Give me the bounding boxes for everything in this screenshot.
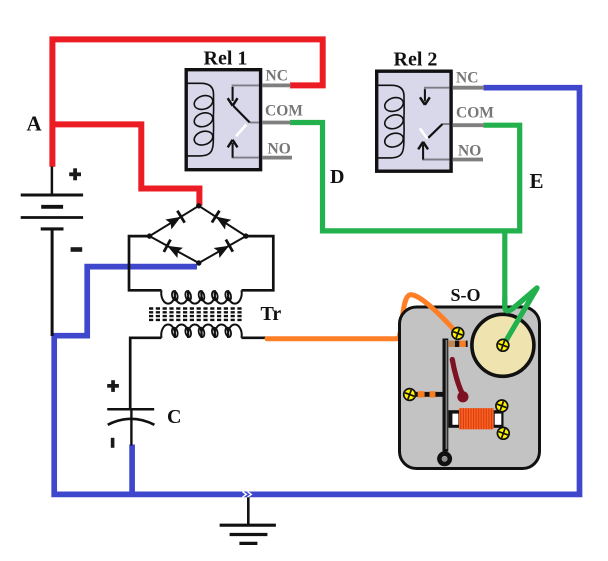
battery + sign xyxy=(69,168,81,180)
node left of bridge xyxy=(147,233,152,238)
S-O lever xyxy=(452,360,462,394)
diode D4 bottom-right xyxy=(213,240,233,260)
svg-text:NC: NC xyxy=(456,70,478,87)
S-O screw top xyxy=(452,327,465,340)
S-O box xyxy=(400,307,540,469)
S-O rod ring xyxy=(439,454,449,464)
wire bridge right node to primary xyxy=(242,236,274,290)
S-O left bar orange segment 1 xyxy=(418,391,425,397)
relay U1 COM arm xyxy=(250,122,259,124)
relay U1 NC contact xyxy=(233,85,259,101)
relay U2 COM arm xyxy=(443,123,450,125)
wire bridge left node to primary xyxy=(129,236,162,290)
S-O mechanism redrawn above wires xyxy=(400,307,540,469)
capacitor - tick xyxy=(111,438,115,448)
svg-text:Tr: Tr xyxy=(261,303,282,325)
ground bar 1 xyxy=(220,524,276,527)
S-O solenoid coil xyxy=(459,408,494,429)
relay U1 box xyxy=(186,70,260,170)
relay U1 NO contact xyxy=(233,143,259,158)
svg-text:S-O: S-O xyxy=(451,285,481,305)
battery B1 plates xyxy=(21,195,83,229)
svg-text:E: E xyxy=(530,169,544,193)
relay U1 arm white slash xyxy=(236,125,246,137)
node top of bridge xyxy=(196,203,201,208)
diode D3 bottom-left xyxy=(164,240,184,259)
svg-text:A: A xyxy=(27,112,43,136)
wire blue: bridge bottom to battery minus, bottom rail, right side up to Rel2 NC xyxy=(54,88,579,495)
svg-text:COM: COM xyxy=(456,105,494,122)
svg-text:D: D xyxy=(330,166,344,188)
transformer Tr secondary coil xyxy=(161,324,241,337)
wire green: branch down into S-O disc xyxy=(503,233,537,345)
bridge edge B-L xyxy=(150,236,199,263)
node right of bridge xyxy=(243,233,248,238)
svg-text:NO: NO xyxy=(458,143,481,160)
S-O screw left xyxy=(403,388,416,401)
S-O screw right upper xyxy=(496,400,509,413)
capacitor mid lead xyxy=(130,410,132,446)
S-O screw right lower xyxy=(497,427,510,440)
svg-text:NC: NC xyxy=(266,68,288,85)
relay U2 box xyxy=(377,71,451,171)
wire red: battery + up and over to Rel1 NC xyxy=(52,39,322,166)
S-O pendulum rod xyxy=(443,339,449,452)
wire orange: transformer to S-O top screw xyxy=(267,295,457,339)
diode D1 top-left xyxy=(165,211,185,231)
svg-text:Rel 2: Rel 2 xyxy=(394,49,438,71)
svg-text:C: C xyxy=(167,406,181,428)
wire green overlay into disc xyxy=(503,288,537,345)
ground bar 3 xyxy=(239,542,257,545)
S-O top terminal tan segment xyxy=(448,341,455,347)
relay U2 NO contact xyxy=(423,145,449,160)
svg-text:COM: COM xyxy=(265,103,303,120)
wire red: node A branch to bridge top xyxy=(52,124,199,205)
relay U1 COM stub xyxy=(262,121,291,125)
ground bar 2 xyxy=(230,533,268,536)
relay U2 coil xyxy=(377,85,404,158)
battery bottom lead xyxy=(51,229,54,336)
diode D2 top-right xyxy=(212,211,232,231)
wire green: Rel1 COM down (D) along to Rel2 COM (E) xyxy=(290,123,520,231)
bridge edge B-R xyxy=(199,236,246,263)
bridge edge L-T xyxy=(150,206,199,236)
S-O left bar xyxy=(412,392,443,397)
battery - sign xyxy=(71,247,83,252)
ground stem xyxy=(247,497,250,524)
relay U1 NC stub xyxy=(262,84,291,88)
S-O screw disc center xyxy=(497,339,510,352)
S-O top terminal black tip xyxy=(466,341,468,347)
battery top lead xyxy=(51,167,54,195)
junction chevrons on rail xyxy=(243,492,252,498)
wire blue: capacitor minus to bottom rail xyxy=(129,445,135,495)
relay U2 COM stub xyxy=(453,123,485,127)
S-O left bar orange segment 2 xyxy=(430,391,436,397)
S-O top terminal orange segment xyxy=(459,341,465,347)
transformer core xyxy=(149,309,244,320)
S-O disc xyxy=(472,314,534,376)
S-O solenoid right clamp xyxy=(494,410,504,428)
relay U2 arm white slash xyxy=(420,128,427,138)
svg-text:NO: NO xyxy=(268,140,291,157)
capacitor C top plate xyxy=(107,408,154,411)
bridge edge R-T xyxy=(199,206,246,236)
relay U2 NC stub xyxy=(453,86,485,90)
wire secondary left to capacitor xyxy=(130,338,161,409)
capacitor C bottom curved plate xyxy=(108,419,155,425)
S-O top terminal black segment xyxy=(455,341,459,347)
relay U1 coil xyxy=(187,83,214,156)
wire orange overlay into box xyxy=(411,295,458,334)
capacitor + sign xyxy=(107,380,119,392)
relay U2 NC contact xyxy=(425,88,450,103)
relay U1 NO stub xyxy=(262,156,292,160)
svg-text:Rel 1: Rel 1 xyxy=(204,48,248,70)
relay U2 NO stub xyxy=(453,158,484,162)
node bottom of bridge xyxy=(196,260,201,265)
wire secondary right to orange xyxy=(242,336,270,339)
S-O solenoid left clamp xyxy=(448,410,459,428)
transformer Tr primary coil xyxy=(161,290,241,303)
